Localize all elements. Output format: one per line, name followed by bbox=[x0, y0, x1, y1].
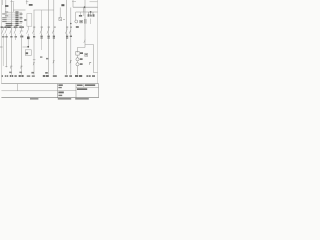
wire W0 (x=2.5 short top) bbox=[2, 0, 4, 5]
node label 1.1 bbox=[5, 5, 8, 7]
bus connector wire bbox=[83, 7, 85, 12]
X1 row 2 bbox=[2, 13, 22, 14]
label H1 bbox=[80, 58, 83, 60]
bottom edge marks bbox=[30, 98, 38, 99]
wire W6 (x=60.2) bbox=[59, 8, 61, 18]
tick on W11 bbox=[33, 59, 36, 61]
label near W13 bbox=[46, 58, 48, 60]
X1 row 6 bbox=[2, 21, 22, 22]
X1 row 8 bbox=[5, 25, 22, 26]
arrow end A4 (x=34) bbox=[33, 63, 35, 66]
node label 2.1 bbox=[29, 4, 33, 6]
title block top line bbox=[1, 83, 98, 85]
node label 11 bbox=[61, 4, 64, 6]
junction dot A bbox=[84, 6, 86, 8]
location box B1 bbox=[25, 50, 31, 56]
arrow end A5 (x=54.5) bbox=[53, 61, 55, 64]
title block divider v2 bbox=[57, 84, 59, 98]
wire W17 (x=3.2 lower) bbox=[2, 35, 4, 66]
contact S3 bbox=[10, 28, 12, 35]
X1 row 4 bbox=[2, 17, 22, 18]
junction dot D bbox=[70, 23, 72, 25]
wire W1 (x=5.8 top) bbox=[5, 0, 7, 12]
arrow end A6 (x=70.8) bbox=[70, 61, 72, 64]
coil K1 bbox=[75, 20, 78, 23]
lamp H2 bbox=[76, 63, 79, 66]
coil K3 (square) bbox=[76, 52, 79, 56]
component box K2 bbox=[80, 20, 83, 23]
title block divider v3 bbox=[75, 84, 77, 98]
bus line L2 (y=12 right) bbox=[76, 11, 98, 13]
label H2 bbox=[80, 63, 83, 65]
wire W7 (x=66.5) bbox=[66, 0, 68, 75]
contact S10 bbox=[52, 28, 54, 35]
wire W18 (x=6.3 lower) bbox=[5, 35, 7, 67]
label K1 bbox=[79, 15, 82, 17]
bottom terminal-number row bbox=[2, 75, 95, 77]
contact S8 bbox=[40, 28, 42, 35]
location box B2 bbox=[27, 14, 32, 27]
wire end arrows V (top right) bbox=[88, 12, 95, 17]
capacitor C1 bars bbox=[85, 19, 86, 24]
contact S5 bbox=[20, 28, 23, 35]
title block mid line left bbox=[1, 90, 57, 92]
arrow end A2 (x=11.3) bbox=[10, 66, 12, 69]
X1 feeder pair verticals bbox=[11, 0, 13, 12]
border frame bbox=[1, 0, 97, 84]
wire hline into node (y=47) bbox=[23, 46, 29, 48]
title divider h bbox=[76, 86, 99, 88]
wire W19 (x=15.6 lower) bbox=[15, 35, 17, 40]
contact S11 bbox=[65, 28, 67, 35]
wire label near W13 bottom bbox=[45, 72, 48, 74]
X1 row 5 bbox=[2, 19, 22, 20]
arrow T2 bbox=[90, 12, 92, 16]
contact labels below bbox=[2, 36, 72, 40]
wire W8 (x=70.8) bbox=[70, 8, 72, 75]
component U1 (box with X at x=60) bbox=[59, 18, 65, 21]
lamp H1 bbox=[76, 58, 79, 61]
wire W10 (x=85 upper) bbox=[84, 0, 86, 48]
X1 row 1 bbox=[5, 11, 22, 12]
label in box B1 bbox=[26, 52, 28, 54]
stub wires under bus bbox=[81, 12, 84, 16]
wire W2 (x=11.3 full) bbox=[10, 0, 12, 75]
tick mark W16 bbox=[89, 62, 91, 65]
contact labels above bbox=[2, 26, 78, 28]
step wire L5 bbox=[78, 48, 86, 53]
X1 row 3 bbox=[5, 15, 22, 16]
title block divider v1 bbox=[17, 84, 19, 91]
contact S6 bbox=[27, 27, 29, 47]
title block right frame bbox=[98, 84, 100, 98]
junction tick at left edge bbox=[0, 46, 3, 48]
wire W20 (x=21.5 lower) bbox=[21, 35, 23, 75]
wire W9 (x=73) bbox=[72, 0, 74, 7]
wire W3 (x=26.8 top) bbox=[26, 0, 28, 4]
contact S7 bbox=[32, 28, 34, 35]
wire W15 (x=90.5 stub) bbox=[90, 19, 92, 25]
terminal block X1 rows bbox=[1, 0, 24, 28]
wire W5 (x=53.8) bbox=[53, 0, 55, 75]
wire W12 (x=41.5) bbox=[41, 10, 43, 50]
contact S2 bbox=[5, 28, 7, 35]
contact slash on W10 bbox=[84, 40, 85, 43]
arrow T3 bbox=[92, 12, 94, 16]
labels T bbox=[88, 14, 90, 16]
contact S4 bbox=[14, 28, 16, 35]
X1 row 9 bbox=[1, 26, 24, 28]
bus line L1 (y=7 right) bbox=[73, 6, 98, 8]
arrow end A1 (x=6.3) bbox=[5, 66, 7, 68]
component K4 small bbox=[85, 53, 88, 56]
title text row 1 bbox=[83, 84, 85, 88]
label near B2 bbox=[24, 19, 26, 21]
label near W12 end bbox=[40, 56, 42, 57]
wire W13 (x=48.5) bbox=[48, 0, 50, 75]
label K3 bbox=[80, 52, 83, 54]
title text row 2 bbox=[77, 88, 87, 90]
relay group K1 (right cluster) bbox=[75, 12, 86, 24]
horizontal line L4 (y=10 mid) bbox=[34, 9, 54, 11]
cell text: scale rows bbox=[58, 84, 62, 86]
contact S1 bbox=[2, 28, 4, 35]
junction dot C bbox=[27, 46, 29, 48]
step wire L6 bbox=[85, 45, 98, 73]
title block bottom line bbox=[1, 97, 98, 99]
horizontal line L3 (y=10 left) bbox=[13, 9, 25, 11]
arrow end A3 (x=21.5) bbox=[20, 66, 22, 69]
junction dot B bbox=[90, 11, 92, 13]
contact S9 bbox=[47, 28, 49, 35]
X1 row 7 bbox=[5, 23, 22, 24]
wire labels bottom-left bbox=[9, 72, 12, 74]
contact S12 bbox=[69, 28, 71, 35]
arrow T1 bbox=[87, 12, 89, 16]
wire W11 (x=34) bbox=[33, 10, 35, 75]
